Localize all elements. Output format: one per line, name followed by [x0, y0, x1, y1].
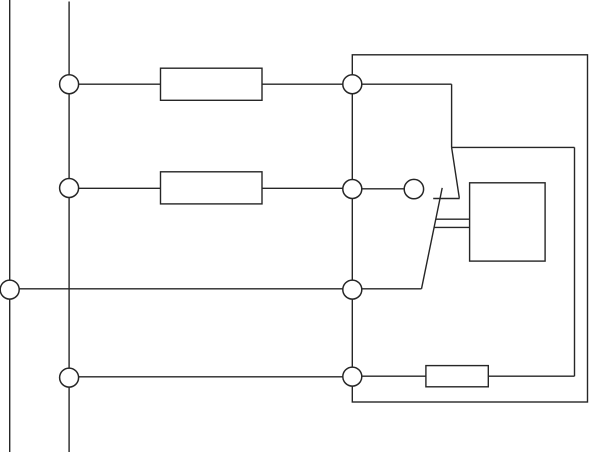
wire — [262, 187, 352, 189]
terminal circle on bus L2 row 1 — [60, 75, 79, 94]
bus line L1 (leftmost vertical) — [9, 0, 11, 452]
wire (row 2 stub to aux terminal) — [352, 188, 403, 190]
linkage line upper — [436, 218, 470, 220]
terminal circle on bus L1 row 3 — [0, 280, 19, 299]
node circle M3 (box left edge, row 3) — [343, 280, 362, 299]
actuator box K1 — [470, 183, 545, 261]
wire row 4 (phase 3 feeder) — [69, 376, 352, 378]
node circle M1 (box left edge, row 1) — [343, 75, 362, 94]
node circle M2 (box left edge, row 2) — [343, 180, 362, 199]
wire (heater to inner loop) — [488, 375, 574, 377]
wire (heater to node row 4) — [352, 375, 426, 377]
resistor R1 (fuse, row 1) — [161, 68, 263, 100]
resistor R2 (fuse, row 2) — [161, 172, 263, 204]
switch contact tick — [433, 198, 460, 200]
aux terminal circle S2 — [404, 179, 423, 198]
wire row 3 (neutral from left bus) — [10, 288, 422, 290]
outer enclosure box — [352, 55, 587, 402]
wire (inner loop top edge) — [452, 146, 575, 148]
bus line L2 (second vertical) — [68, 2, 70, 452]
resistor R3 (heater element) — [426, 366, 488, 387]
wire (inner loop right edge) — [574, 147, 576, 376]
switch blade Q1 — [422, 188, 443, 289]
terminal circle on bus L2 row 2 — [60, 179, 79, 198]
wire (drop from row 1 into breaker) — [451, 84, 453, 147]
wire row 1 (phase 1 feeder) — [69, 83, 160, 85]
node circle M4 (box left edge, row 4) — [343, 367, 362, 386]
wire — [262, 83, 452, 85]
linkage line lower — [434, 226, 470, 228]
wire row 2 (phase 2 feeder) — [69, 187, 160, 189]
switch fixed contact slant — [452, 147, 460, 198]
terminal circle on bus L2 row 4 — [60, 368, 79, 387]
